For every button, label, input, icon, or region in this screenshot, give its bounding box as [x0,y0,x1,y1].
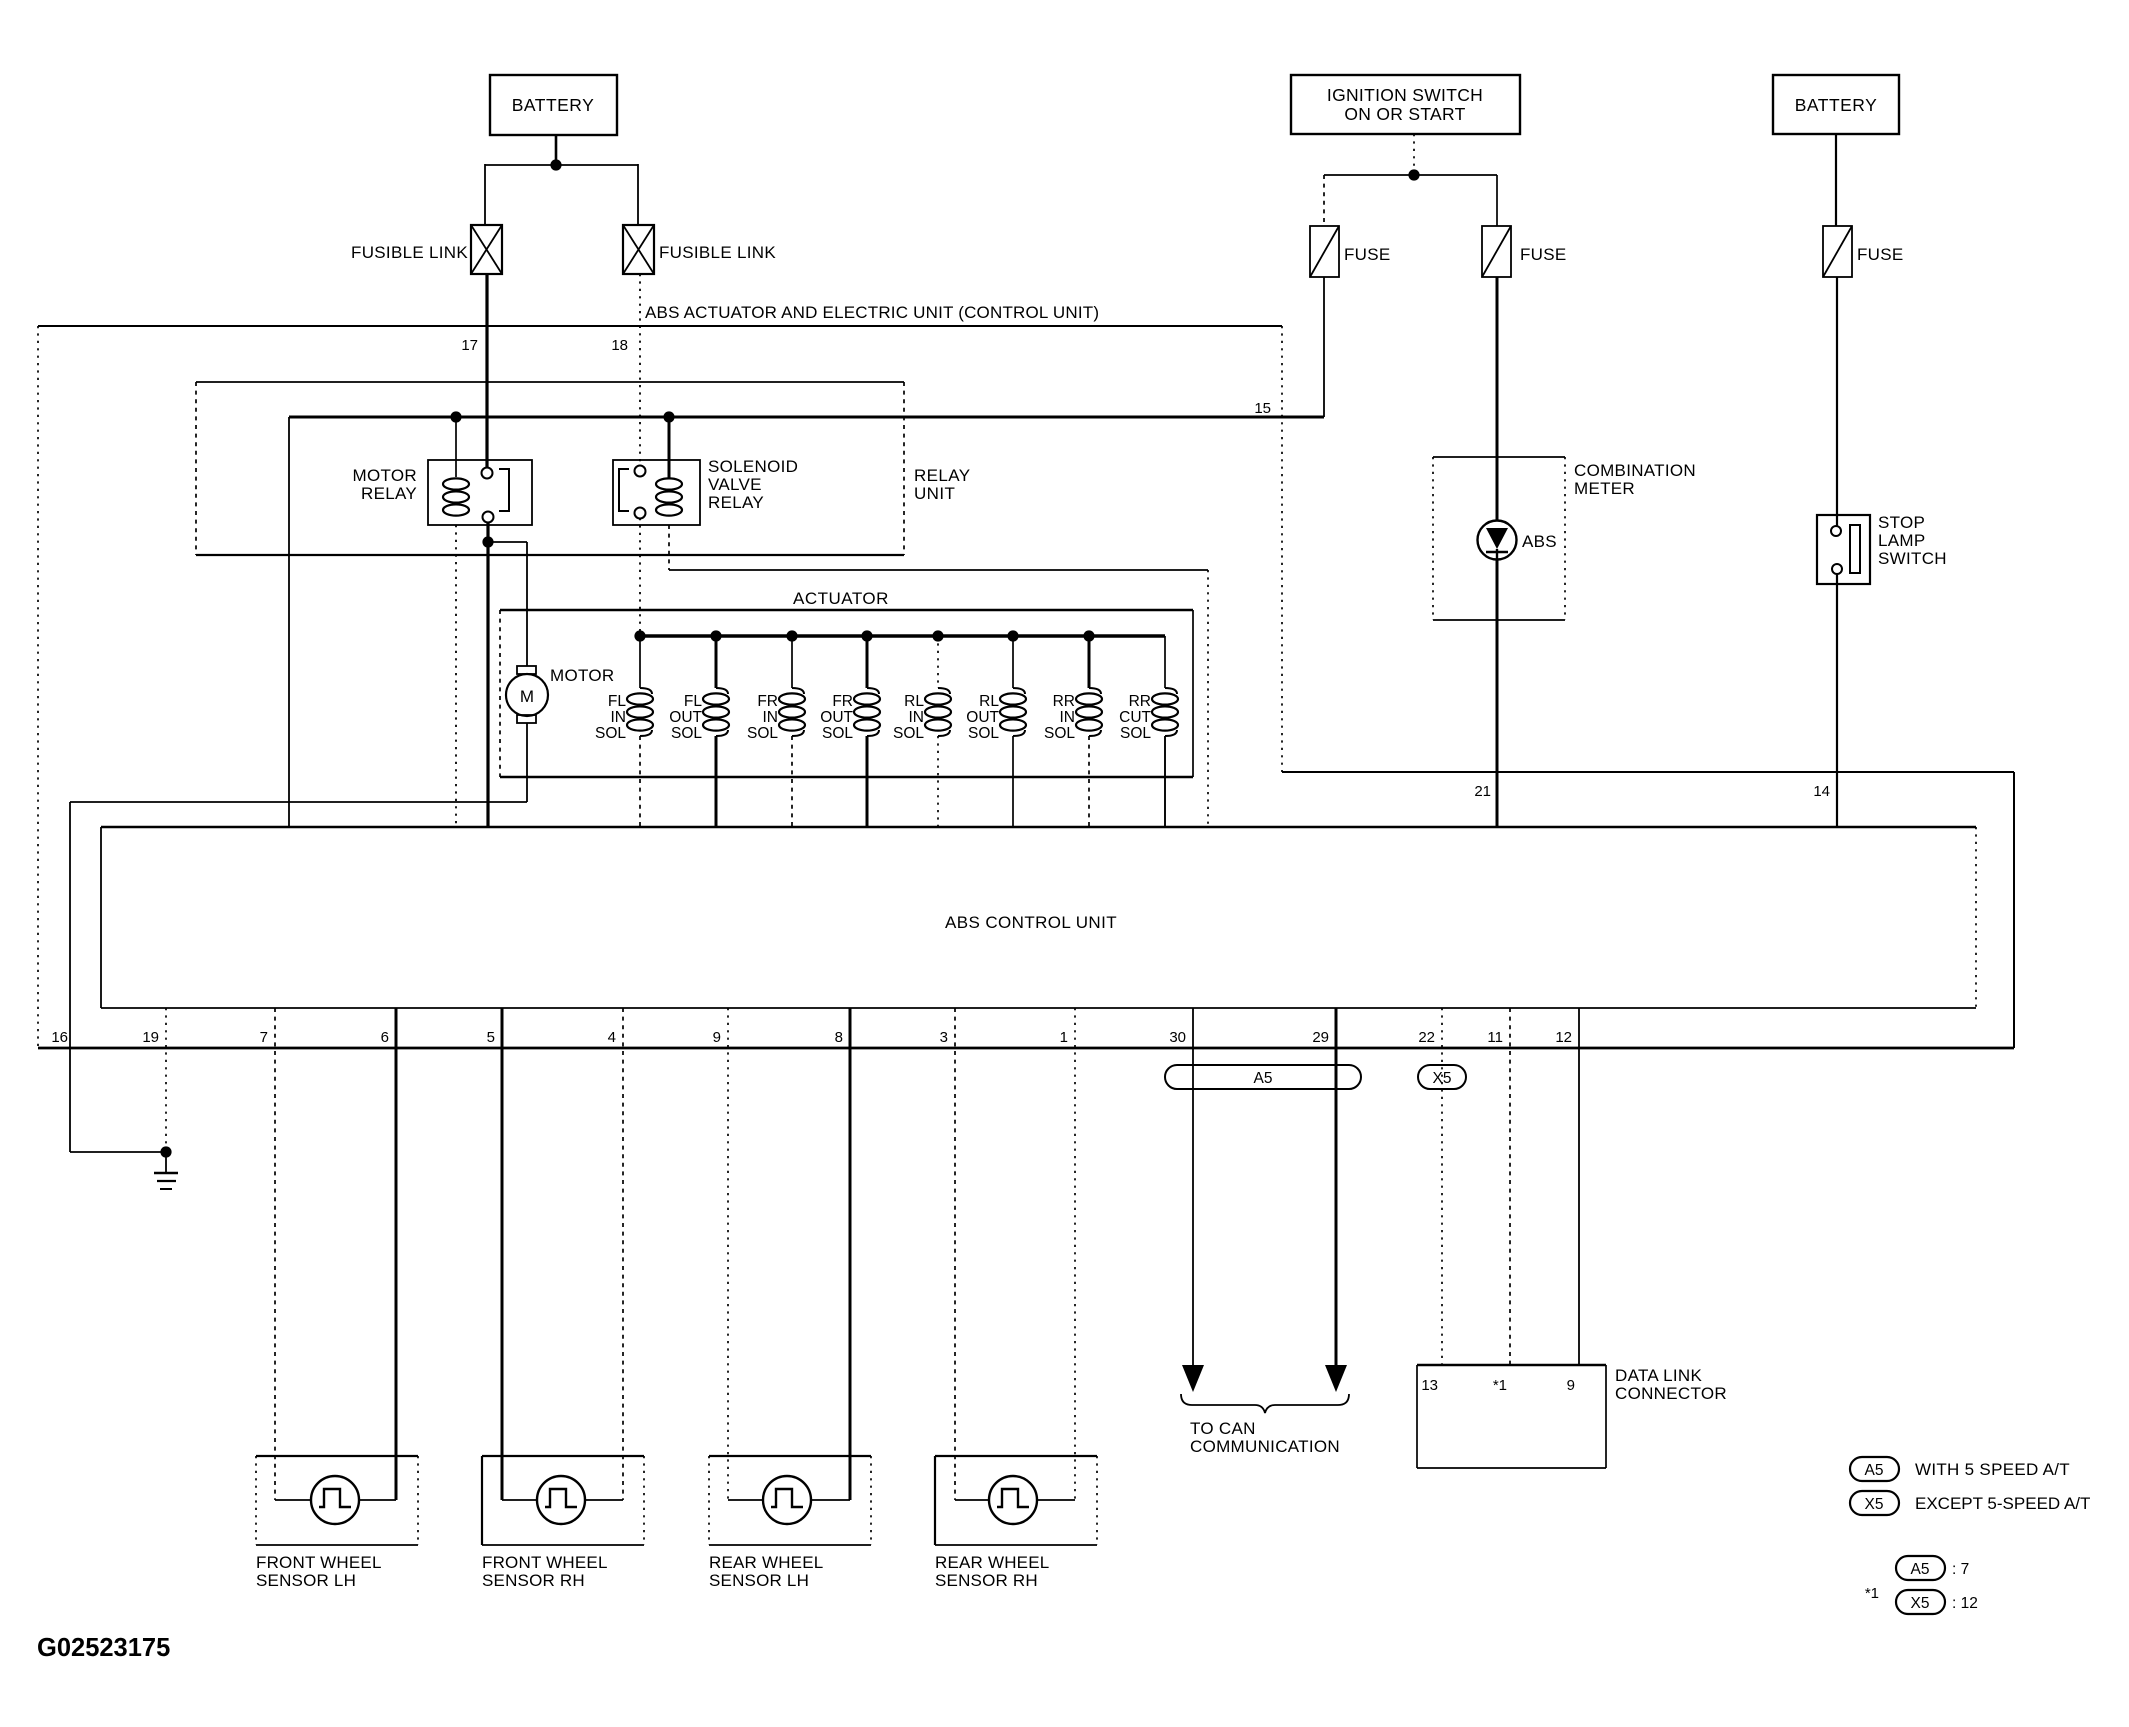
wire through meter [1496,457,1499,521]
solenoid RL OUT SOL [1007,630,1018,641]
svg-text:: 12: : 12 [1952,1595,1978,1612]
battery B1 (left) [490,75,617,135]
svg-text:19: 19 [142,1029,159,1046]
svg-text:SOL: SOL [595,725,626,742]
wire: pin 1 [1074,1008,1076,1500]
svg-text:FL: FL [608,693,626,710]
wire: ground drop x=70, pin 16 [69,802,71,1152]
wire: pin 22 [1441,1008,1443,1365]
svg-text:EXCEPT 5-SPEED A/T: EXCEPT 5-SPEED A/T [1915,1494,2090,1513]
wire: pin 29 [1335,1008,1338,1365]
svg-text:OUT: OUT [820,709,853,726]
svg-text:IN: IN [909,709,925,726]
wire: RL OUT solenoid to ABS control unit [1012,736,1014,827]
svg-text:IGNITION SWITCH: IGNITION SWITCH [1327,85,1483,105]
wire: pin 6 [395,1008,398,1500]
svg-text:FUSE: FUSE [1344,245,1391,264]
X5 connector capsule [1418,1065,1466,1089]
wire: tap to motor relay coil [455,417,457,477]
fusible link FL2 [623,225,654,274]
svg-text:RELAY: RELAY [914,466,971,485]
svg-text:5: 5 [487,1029,495,1046]
solenoid FL IN SOL [639,636,641,688]
svg-text:9: 9 [1567,1377,1575,1394]
wheel sensor: REAR WHEEL SENSOR LH [709,1455,871,1457]
wire: pin 9 [727,1008,729,1500]
wire: fusible link 2 to solenoid valve relay contact, pin 18 (dotted) [639,274,641,466]
wire: motor relay coil return (dotted) down to control unit [455,525,457,827]
svg-text:29: 29 [1312,1029,1329,1046]
wire: FR IN solenoid to ABS control unit [791,736,793,827]
wire: pin 4 [622,1008,624,1500]
wire: pin 30 [1192,1008,1194,1365]
wire: pin 3 [954,1008,956,1500]
svg-text:16: 16 [51,1029,68,1046]
svg-text:M: M [520,687,534,706]
wheel sensor: FRONT WHEEL SENSOR RH [482,1455,644,1457]
wire: motor relay output (thick) down [486,522,489,542]
wire: lamp to ABS control unit pin 21 [1496,559,1499,827]
svg-text:FUSIBLE LINK: FUSIBLE LINK [351,243,468,262]
motor relay coil [443,478,469,489]
svg-text:ABS CONTROL UNIT: ABS CONTROL UNIT [945,913,1117,932]
svg-text:SOL: SOL [968,725,999,742]
node: ignition feed junction [1408,169,1419,180]
node: motor relay coil tap [450,411,461,422]
svg-text:ON OR START: ON OR START [1344,104,1465,124]
wire: RL IN solenoid to ABS control unit [937,736,939,827]
svg-text:IN: IN [1060,709,1076,726]
wire: pin 7 [274,1008,276,1500]
svg-text:BATTERY: BATTERY [512,95,595,115]
svg-text:LAMP: LAMP [1878,531,1926,550]
svg-text:X5: X5 [1865,1496,1884,1513]
svg-text:SOL: SOL [822,725,853,742]
wire: drop to fuse F2 [1496,175,1498,226]
wire: supply bus y=417 from ABS control unit riser to pin 15 [289,416,1324,419]
wire: junction to motor [488,541,527,543]
svg-text:SENSOR RH: SENSOR RH [935,1571,1038,1590]
wire: battery B2 to fuse F3 [1835,134,1837,226]
svg-text:ABS ACTUATOR AND ELECTRIC UNIT: ABS ACTUATOR AND ELECTRIC UNIT (CONTROL … [645,303,1099,322]
svg-text:9: 9 [713,1029,721,1046]
wheel sensor: REAR WHEEL SENSOR RH [935,1455,1097,1457]
solenoid RR IN SOL [1083,630,1094,641]
svg-text:BATTERY: BATTERY [1795,95,1878,115]
wire: ignition split header [1324,174,1497,176]
svg-text:ABS: ABS [1522,532,1557,551]
svg-text:SOL: SOL [747,725,778,742]
wheel sensor: FRONT WHEEL SENSOR LH [256,1455,418,1457]
wire: FL IN solenoid to ABS control unit [639,736,641,827]
svg-text:UNIT: UNIT [914,484,955,503]
svg-text:X5: X5 [1433,1070,1452,1087]
wire: junction to ABS control unit (thick) [486,542,489,827]
svg-text:DATA LINK: DATA LINK [1615,1366,1702,1385]
svg-text:CUT: CUT [1119,709,1151,726]
svg-text:3: 3 [940,1029,948,1046]
wire: tap to solenoid relay coil (thick) [668,417,671,478]
fuse F1 [1310,226,1339,277]
wire: RR IN solenoid to ABS control unit [1088,736,1090,827]
wire: left drop to fusible link 1 [484,164,486,225]
fuse F2 [1482,226,1511,277]
svg-text:SWITCH: SWITCH [1878,549,1947,568]
svg-text:SENSOR RH: SENSOR RH [482,1571,585,1590]
wire: FL OUT solenoid to ABS control unit [715,736,718,827]
svg-text:STOP: STOP [1878,513,1925,532]
svg-text:MOTOR: MOTOR [550,666,614,685]
wire: battery B1 to junction [555,135,558,165]
svg-text:RR: RR [1129,693,1151,710]
svg-text:MOTOR: MOTOR [353,466,417,485]
wire: riser x=289 down to ABS control unit [288,417,290,827]
solenoid FL OUT SOL [710,630,721,641]
svg-text:4: 4 [608,1029,616,1046]
wire: RR CUT solenoid to ABS control unit [1164,736,1166,827]
svg-text:11: 11 [1487,1029,1503,1046]
svg-text:30: 30 [1169,1029,1186,1046]
CAN arrow pin 30 [1182,1365,1204,1392]
CAN arrow pin 29 [1325,1365,1347,1392]
wire: pin 8 [849,1008,852,1500]
svg-text:12: 12 [1555,1029,1572,1046]
svg-text:TO CAN: TO CAN [1190,1419,1256,1438]
wire: coil return run to right [669,569,1208,571]
solenoid FR IN SOL [786,630,797,641]
wire: fuse F3 to stop lamp switch [1836,277,1838,526]
ABS warning lamp [1478,521,1517,560]
svg-text:SOL: SOL [671,725,702,742]
svg-text:*1: *1 [1865,1585,1879,1602]
svg-text:WITH 5 SPEED A/T: WITH 5 SPEED A/T [1915,1460,2070,1479]
svg-text:OUT: OUT [669,709,702,726]
svg-text:REAR WHEEL: REAR WHEEL [709,1553,823,1572]
A5 connector capsule [1165,1065,1361,1089]
svg-text:IN: IN [763,709,779,726]
node: bus feed [634,630,645,641]
brace: to CAN [1181,1394,1349,1413]
wire: pin 5 [501,1008,504,1500]
svg-text:FUSIBLE LINK: FUSIBLE LINK [659,243,776,262]
wire: solenoid relay contact to solenoid bus (dotted) [639,518,641,636]
svg-text:8: 8 [835,1029,843,1046]
relay unit dashed box [196,381,904,383]
svg-text:CONNECTOR: CONNECTOR [1615,1384,1727,1403]
svg-text:SOLENOID: SOLENOID [708,457,798,476]
svg-text:REAR WHEEL: REAR WHEEL [935,1553,1049,1572]
svg-text:OUT: OUT [966,709,999,726]
svg-text:SOL: SOL [1044,725,1075,742]
svg-text:FL: FL [684,693,702,710]
node: solenoid valve relay coil tap [663,411,674,422]
svg-text:METER: METER [1574,479,1635,498]
svg-text:FR: FR [832,693,853,710]
wire: pin 11 [1509,1008,1511,1365]
svg-text:FUSE: FUSE [1520,245,1567,264]
data link connector [1417,1364,1606,1367]
svg-text:FUSE: FUSE [1857,245,1904,264]
svg-text:22: 22 [1418,1029,1435,1046]
wire: stop lamp switch to ABS control unit pin 14 [1836,574,1838,827]
svg-text:21: 21 [1474,783,1491,800]
svg-text:1: 1 [1060,1029,1068,1046]
wire: fuse F1 to pin 15 [1323,277,1325,417]
fuse F3 [1823,226,1852,277]
solenoid bus [640,634,1165,637]
wire: drop to fuse F1 (dashed) [1323,175,1325,226]
wire: feed split header [485,164,638,166]
svg-text:7: 7 [260,1029,268,1046]
fusible link FL1 [471,225,502,274]
svg-text:ACTUATOR: ACTUATOR [793,589,889,608]
svg-text:VALVE: VALVE [708,475,762,494]
svg-text:RL: RL [979,693,999,710]
wire: solenoid relay coil return (dashed) [668,525,670,570]
stop lamp switch [1817,515,1870,584]
wire: motor to ground run [526,723,528,802]
solenoid valve relay [613,460,700,525]
wire: dotted drop to ABS control unit at x=1208 [1207,570,1209,827]
svg-text:IN: IN [611,709,627,726]
ABS control unit box [101,826,1976,829]
svg-text:G02523175: G02523175 [37,1634,170,1662]
svg-text:17: 17 [461,337,478,354]
svg-text:X5: X5 [1911,1595,1930,1612]
svg-text:SENSOR LH: SENSOR LH [709,1571,809,1590]
svg-text:FR: FR [757,693,778,710]
ground G1 [160,1146,171,1157]
svg-text:SOL: SOL [893,725,924,742]
solenoid RL IN SOL [932,630,943,641]
svg-text:: 7: : 7 [1952,1561,1969,1578]
legend X5 [1850,1491,1899,1515]
battery B2 (right) [1773,75,1899,134]
svg-text:RR: RR [1053,693,1075,710]
motor M [517,666,536,674]
solenoid FR OUT SOL [861,630,872,641]
wire: FR OUT solenoid to ABS control unit [866,736,869,827]
svg-text:A5: A5 [1865,1462,1884,1479]
ignition switch box [1291,75,1520,134]
solenoid valve relay coil [656,478,682,489]
svg-text:COMBINATION: COMBINATION [1574,461,1696,480]
svg-text:18: 18 [611,337,628,354]
motor relay [428,460,532,525]
wire: pin 19 [165,1008,167,1152]
node: motor relay output junction [482,536,493,547]
motor relay contact circles and fixed contact [482,468,493,479]
svg-text:14: 14 [1813,783,1830,800]
solenoid RR CUT SOL [1164,636,1166,688]
svg-text:6: 6 [381,1029,389,1046]
svg-text:*1: *1 [1493,1377,1507,1394]
svg-text:A5: A5 [1254,1070,1273,1087]
svg-text:13: 13 [1421,1377,1438,1394]
svg-text:SENSOR LH: SENSOR LH [256,1571,356,1590]
svg-text:A5: A5 [1911,1561,1930,1578]
wire: right drop to fusible link 2 [637,164,639,225]
combination meter dashed box [1433,456,1565,458]
wire: pin 12 [1578,1008,1580,1365]
svg-text:FRONT WHEEL: FRONT WHEEL [482,1553,608,1572]
svg-text:RELAY: RELAY [708,493,764,512]
legend A5 [1850,1457,1899,1481]
svg-text:COMMUNICATION: COMMUNICATION [1190,1437,1340,1456]
wire: fuse F2 to combination meter (thick) [1496,277,1499,457]
svg-text:15: 15 [1254,400,1271,417]
svg-text:SOL: SOL [1120,725,1151,742]
node: battery B1 feed junction [550,159,561,170]
svg-text:RELAY: RELAY [361,484,417,503]
wire: ignition switch to junction (dotted) [1413,134,1415,175]
wire: fusible link 1 to motor relay contact, pin 17 [485,274,488,467]
svg-text:RL: RL [904,693,924,710]
svg-text:FRONT WHEEL: FRONT WHEEL [256,1553,382,1572]
